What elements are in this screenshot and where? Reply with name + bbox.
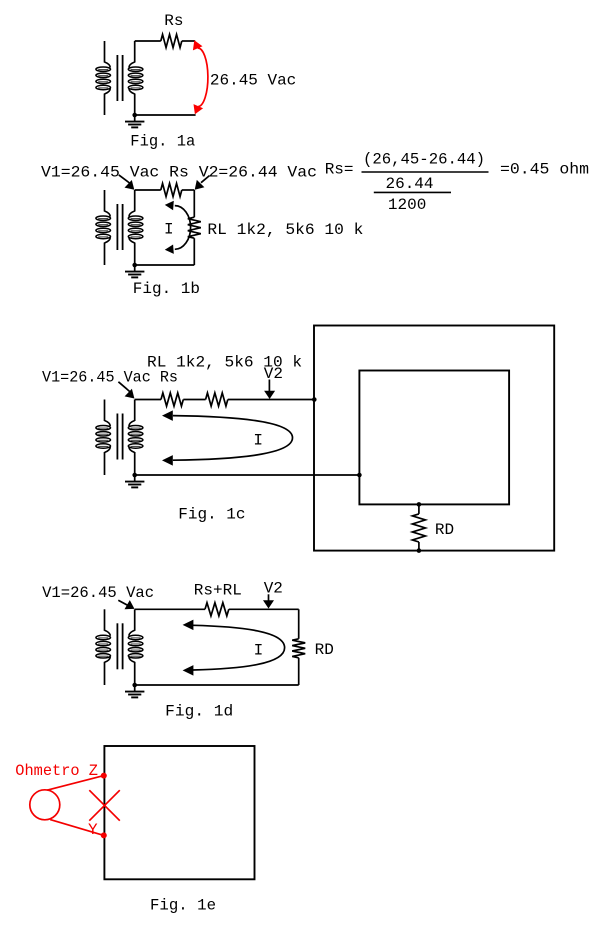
svg-text:26.45 Vac: 26.45 Vac — [210, 72, 296, 90]
svg-text:V1=26.45 Vac Rs: V1=26.45 Vac Rs — [42, 369, 178, 387]
svg-text:RD: RD — [435, 521, 454, 539]
svg-text:26.44: 26.44 — [386, 175, 434, 193]
svg-text:Fig. 1e: Fig. 1e — [150, 897, 216, 915]
svg-text:I: I — [164, 221, 174, 239]
svg-text:Fig. 1d: Fig. 1d — [165, 703, 233, 721]
svg-text:Ohmetro Z: Ohmetro Z — [15, 762, 98, 780]
svg-text:V1=26.45 Vac Rs V2=26.44 Vac: V1=26.45 Vac Rs V2=26.44 Vac — [41, 164, 317, 182]
svg-text:Y: Y — [88, 821, 98, 839]
svg-text:I: I — [254, 642, 264, 660]
svg-text:I: I — [253, 432, 263, 450]
svg-text:Fig. 1b: Fig. 1b — [133, 280, 200, 298]
svg-text:(26,45-26.44): (26,45-26.44) — [363, 151, 485, 169]
svg-text:V1=26.45 Vac: V1=26.45 Vac — [42, 584, 154, 602]
svg-text:1200: 1200 — [388, 196, 426, 214]
svg-text:Rs: Rs — [164, 12, 183, 30]
svg-text:=0.45 ohm: =0.45 ohm — [500, 161, 589, 179]
svg-text:Rs+RL: Rs+RL — [194, 582, 242, 600]
svg-text:V2: V2 — [264, 580, 283, 598]
svg-text:RD: RD — [315, 641, 334, 659]
svg-text:Fig. 1a: Fig. 1a — [130, 133, 195, 151]
svg-text:V2: V2 — [264, 365, 283, 383]
svg-text:RL 1k2, 5k6 10 k: RL 1k2, 5k6 10 k — [207, 221, 363, 239]
svg-text:Fig. 1c: Fig. 1c — [178, 506, 245, 524]
svg-text:Rs=: Rs= — [325, 161, 354, 179]
